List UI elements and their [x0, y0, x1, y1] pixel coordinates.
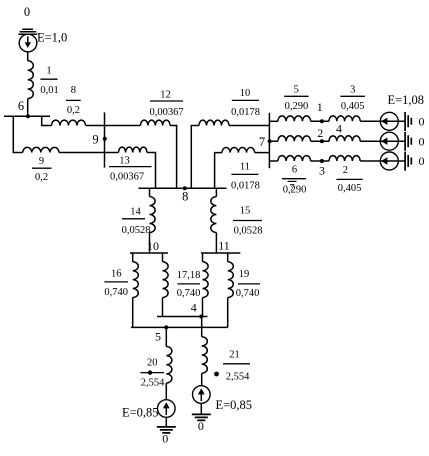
svg-text:0,00367: 0,00367 [149, 107, 183, 118]
label 7 (reactor 7 number, overlapping) [288, 181, 297, 194]
label 10/0,0178 [231, 88, 260, 118]
svg-text:0,740: 0,740 [177, 288, 201, 299]
svg-text:5: 5 [294, 85, 299, 96]
svg-text:4: 4 [336, 122, 342, 136]
wire reactor 20 to source E20 [165, 383, 167, 400]
label 13/0,00367 [109, 155, 152, 182]
reactor 11 (horizontal coil) [222, 147, 255, 152]
wire bus 8 up to reactor 11 [215, 153, 222, 189]
wire reactor 21 to source E21 [201, 373, 203, 386]
label E=0,85 (left) [122, 406, 159, 420]
junction dot node 9 [103, 137, 107, 141]
svg-text:E=1,08: E=1,08 [388, 93, 425, 107]
reactor 7 (horizontal coil) [278, 136, 311, 141]
svg-text:20: 20 [147, 358, 158, 369]
wire bus 11 down to reactor 18 [202, 253, 204, 262]
wire reactor 15 to bus 11 [215, 233, 217, 254]
svg-text:3: 3 [319, 163, 325, 177]
wire reactor 17 to bus 4 [162, 298, 164, 317]
reactor 6 (horizontal coil) [278, 156, 311, 161]
reactor 2 (horizontal coil) [329, 156, 360, 161]
svg-text:15: 15 [240, 206, 251, 217]
label 16/0,740 [104, 268, 128, 297]
label 20/2,554 with dot [140, 358, 165, 389]
generator G3 circle [380, 152, 398, 170]
wire node 7 to reactor 5 [269, 120, 278, 122]
svg-text:0: 0 [24, 5, 30, 19]
wire reactor 8 to node 9 bus [86, 125, 105, 127]
wire bus 8 up to reactor 10 [191, 126, 199, 189]
label E=1,08 [388, 93, 425, 107]
svg-text:0,00367: 0,00367 [110, 171, 144, 182]
node 0 label (right, row 3) [419, 154, 425, 168]
svg-text:10: 10 [147, 239, 159, 253]
node 0 label (top-left) [24, 5, 30, 19]
label 11/0,0178 [231, 162, 260, 192]
svg-text:0: 0 [419, 134, 425, 148]
node 7 vertical bus [268, 113, 270, 168]
svg-text:E=1,0: E=1,0 [37, 31, 67, 45]
node 9 label [92, 133, 98, 147]
node 0 label (right, row 2) [419, 134, 425, 148]
svg-text:0: 0 [419, 154, 425, 168]
reactor 17 (vertical coil) [163, 262, 169, 298]
reactor 1 (vertical coil) [28, 61, 34, 99]
svg-text:6: 6 [292, 164, 297, 175]
label 14/0,0528 [122, 207, 151, 236]
svg-text:0: 0 [198, 419, 204, 433]
label 12/0,00367 [149, 89, 183, 118]
label 4 (reactor 4 number) [336, 122, 342, 136]
bus 5 (horizontal) [131, 326, 228, 328]
svg-text:7: 7 [289, 183, 294, 194]
svg-text:0,0178: 0,0178 [231, 180, 260, 191]
reactor 15 (vertical coil, loops left) [211, 197, 217, 233]
svg-text:2,554: 2,554 [141, 378, 165, 389]
wire bus 10 down to reactor 17 [162, 253, 164, 262]
node 8 label [182, 189, 188, 203]
svg-text:5: 5 [155, 330, 161, 344]
svg-text:19: 19 [239, 269, 250, 280]
reactor 18 (vertical coil) [203, 262, 209, 298]
wire reactor 5 to node 1 [311, 120, 329, 122]
wire reactor 16 to bus 5 [132, 298, 134, 328]
svg-text:E=0,85: E=0,85 [122, 406, 159, 420]
svg-text:E=0,85: E=0,85 [216, 398, 253, 412]
svg-text:0,01: 0,01 [40, 85, 58, 96]
svg-text:0,0528: 0,0528 [234, 225, 263, 236]
wire source E20 to ground [165, 417, 167, 427]
wire reactor 11 to node 7 bus [255, 152, 270, 154]
svg-text:0,2: 0,2 [35, 172, 48, 183]
svg-text:17,18: 17,18 [177, 270, 201, 281]
svg-text:11: 11 [218, 238, 230, 252]
wire reactor 3 to generator G1 and ground [360, 120, 405, 122]
source E21 circle (EMF E=0,85) [193, 386, 211, 404]
bus 4 (horizontal) [157, 316, 208, 318]
bus 6 (horizontal) [4, 115, 50, 117]
wire bus 8 down to reactor 15 [215, 188, 217, 196]
reactor 9 (horizontal coil) [23, 147, 59, 152]
reactor 10 (horizontal coil) [199, 120, 229, 125]
node 9 vertical bus [104, 112, 106, 167]
svg-text:9: 9 [39, 156, 44, 167]
label E=0,85 (right) [216, 398, 253, 412]
source E20 circle (EMF E=0,85) [158, 400, 176, 418]
node 10 label [147, 239, 159, 253]
wire bus 6 down to reactor 9 [13, 116, 22, 152]
wire source E1 to reactor 1 [27, 52, 29, 61]
svg-text:8: 8 [71, 85, 76, 96]
label 19/0,740 [236, 269, 260, 299]
wire source E21 to ground [200, 403, 202, 414]
label 17,18/0,740 [177, 270, 201, 299]
junction dot node 1 [320, 119, 324, 123]
node 2 label [317, 126, 323, 140]
generator G1 circle (EMF E=1,08) [380, 112, 398, 130]
svg-text:9: 9 [92, 133, 98, 147]
reactor 4 (horizontal coil) [329, 136, 360, 141]
wire node 9 to reactor 12 [105, 125, 141, 127]
node 4 label [191, 300, 197, 314]
node 0 label (bottom left ground) [162, 432, 168, 446]
svg-text:4: 4 [191, 300, 197, 314]
svg-text:0,740: 0,740 [236, 288, 260, 299]
node 0 label (bottom right ground) [198, 419, 204, 433]
svg-text:10: 10 [240, 88, 251, 99]
junction dot node 2 [320, 139, 324, 143]
junction dot node 6 [26, 114, 30, 118]
reactor 19 (vertical coil) [228, 262, 234, 298]
node 5 label [155, 330, 161, 344]
wire reactor 1 to bus 6 [27, 99, 29, 117]
svg-text:13: 13 [119, 155, 130, 166]
svg-text:6: 6 [18, 99, 24, 113]
ground (below source E21) [192, 414, 211, 420]
svg-text:14: 14 [130, 207, 141, 218]
junction dot node 3 [320, 159, 324, 163]
reactor 5 (horizontal coil) [278, 116, 311, 121]
reactor 3 (horizontal coil) [329, 116, 360, 121]
svg-text:21: 21 [229, 350, 240, 361]
svg-text:0,2: 0,2 [67, 105, 80, 116]
svg-text:0,0528: 0,0528 [122, 225, 151, 236]
wire node 7 to reactor 6 [269, 160, 278, 162]
svg-text:0,290: 0,290 [285, 101, 309, 112]
label 21/2,554 with dot [214, 350, 250, 383]
junction dot node 7 [268, 139, 272, 143]
label E=1,0 [37, 31, 67, 45]
svg-text:0: 0 [162, 432, 168, 446]
svg-text:0,405: 0,405 [341, 101, 365, 112]
junction dot node 8 [183, 186, 187, 190]
wire bus 8 down to reactor 14 [149, 188, 151, 196]
reactor 20 (vertical coil) [166, 347, 172, 383]
wire reactor 6 to node 3 [311, 160, 329, 162]
node 0 label (right, row 1) [419, 114, 425, 128]
wire reactor 19 to bus 5 [227, 298, 229, 328]
svg-text:0: 0 [419, 114, 425, 128]
wire bus 10 down to reactor 16 [132, 253, 134, 262]
generator G2 circle [380, 132, 398, 150]
bus 11 (horizontal) [201, 252, 240, 254]
svg-text:0,740: 0,740 [104, 287, 128, 298]
svg-text:0,0178: 0,0178 [231, 107, 260, 118]
wire reactor 9 to reactor 13 (crosses node 9 bus) [59, 152, 119, 154]
wire bus 11 down to reactor 19 [227, 253, 229, 262]
label 8/0,2 [66, 85, 81, 116]
wire bus 5 down to reactor 20 [165, 327, 167, 346]
wire reactor 4 to generator G2 and ground [360, 140, 405, 142]
label 6/0,290 [282, 164, 306, 195]
reactor 21 (vertical coil) [202, 337, 208, 373]
wire reactor 13 down to bus 8 [147, 153, 156, 189]
ground (right of G3) [405, 152, 411, 171]
label 2/0,405 [336, 165, 362, 194]
wire reactor 10 to node 7 bus [229, 125, 269, 127]
svg-text:11: 11 [240, 162, 250, 173]
reactor 16 (vertical coil) [133, 262, 139, 298]
bus 10 (horizontal) [130, 252, 168, 254]
svg-text:8: 8 [182, 189, 188, 203]
ground (right of G2) [405, 132, 411, 151]
wire step bus 6 down to reactor 8 line [42, 116, 52, 125]
label 15/0,0528 [233, 206, 262, 237]
wire reactor 12 down to bus 8 [170, 126, 177, 189]
node 7 label [259, 135, 265, 149]
reactor 13 (horizontal coil) [119, 147, 147, 152]
svg-text:7: 7 [259, 135, 265, 149]
label 5/0,290 [284, 85, 308, 112]
label 3/0,405 [340, 85, 365, 112]
ground (node 0, above source E=1,0) [18, 29, 37, 34]
svg-text:0,405: 0,405 [338, 183, 362, 194]
wire reactor 18 to bus 4 [202, 298, 204, 317]
node 1 label [317, 100, 323, 114]
svg-text:2: 2 [317, 126, 323, 140]
wire node 7 to reactor 7 [269, 140, 278, 142]
wire reactor 7 to node 2 [311, 140, 329, 142]
junction dot node 5 [164, 325, 168, 329]
ground (right of G1, vertical bars) [405, 112, 411, 131]
node 11 label [218, 238, 230, 252]
node 6 label [18, 99, 24, 113]
wire reactor 2 to generator G3 and ground [360, 160, 405, 162]
svg-text:16: 16 [111, 268, 122, 279]
reactor 14 (vertical coil) [150, 197, 156, 233]
svg-text:3: 3 [350, 85, 355, 96]
svg-text:1: 1 [317, 100, 323, 114]
label 9/0,2 [32, 156, 52, 183]
source E1 circle (EMF E=1,0) [19, 34, 37, 52]
svg-text:2,554: 2,554 [226, 372, 250, 383]
wire reactor 14 to bus 10 [149, 233, 151, 254]
svg-text:2: 2 [343, 165, 348, 176]
wire bus 4 down to reactor 21 (crosses bus 5) [201, 317, 203, 337]
junction dot node 4 [199, 315, 203, 319]
svg-text:12: 12 [160, 89, 171, 100]
reactor 12 (horizontal coil) [141, 120, 171, 125]
bus 8 (horizontal) [138, 187, 226, 189]
ground (below source E20) [157, 427, 176, 433]
reactor 8 (horizontal coil) [52, 120, 86, 125]
node 3 label [319, 163, 325, 177]
label 1/0,01 [40, 66, 58, 96]
svg-text:1: 1 [46, 66, 51, 77]
